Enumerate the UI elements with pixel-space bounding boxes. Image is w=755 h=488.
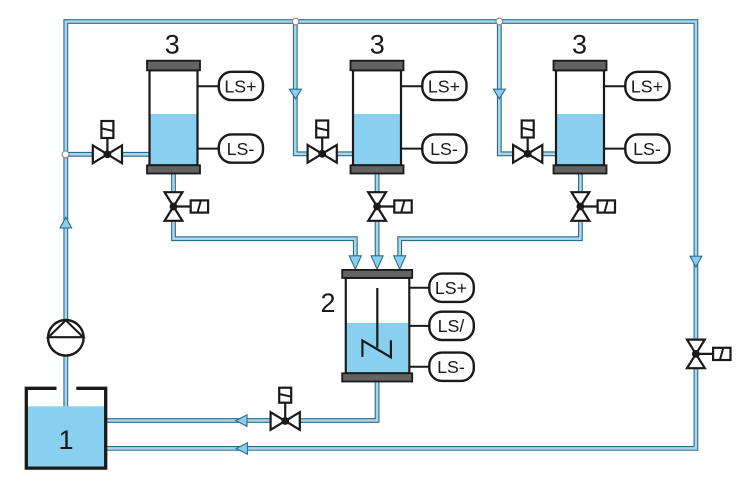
wire: drop to tank C inlet [499,22,557,154]
agitator impeller [362,340,391,357]
svg-text:LS+: LS+ [435,278,467,298]
flow arrow down on drop B [290,89,302,99]
wire: top header + left riser + right downcomer [66,22,696,449]
pipe network light cores [66,22,696,449]
drain valve mixer to tank 1 [271,388,300,430]
tank 3 (left) [147,61,263,174]
svg-text:2: 2 [320,288,335,318]
agitator shaft [376,288,378,348]
inlet valve tank B [308,121,337,163]
bottom valve tank A [165,192,209,221]
sensor connectors [409,287,429,289]
wire: tank A bottom to mixer [174,172,356,263]
flow arrow down on right downcomer [690,256,702,267]
LS/ stadium [429,312,474,340]
tank 3 (middle) [351,61,467,174]
junction node on top header (drop C) [496,18,503,25]
svg-text:LS/: LS/ [438,316,465,336]
svg-text:LS-: LS- [437,357,465,377]
flow arrow left on bottom return [236,443,247,454]
pipe network dark outlines [66,22,696,449]
flow arrow up on left riser [60,217,72,228]
walls [26,388,105,468]
LS+ stadium [429,274,474,302]
bottom valve tank C [572,192,616,221]
junction node on top header (drop B) [292,18,299,25]
flow arrow left on mixer drain [236,415,247,426]
svg-text:3: 3 [370,29,385,59]
wire: drop to tank B inlet [295,22,354,154]
svg-text:3: 3 [165,29,180,59]
bottom valve tank B [368,192,412,221]
bottom cap [342,373,412,381]
reservoir tank 1 [26,388,106,468]
inlet valve tank C [513,121,542,163]
top cap [342,270,412,278]
water fill [347,323,408,373]
svg-text:3: 3 [572,29,587,59]
tank 3 (right) [554,61,670,174]
water fill [26,406,106,468]
inlet valve tank A [93,121,122,163]
wire: tank C bottom to mixer [400,172,581,263]
wire: tank B bottom to mixer [375,172,380,263]
mixer tank 2 [342,270,474,382]
wire: mixer drain to tank 1 [107,380,377,421]
flow arrows into mixer tank [349,256,361,269]
junction node on left riser [62,151,69,158]
flow arrow down on drop C [493,89,505,99]
LS- stadium [429,353,474,381]
valve on right downcomer [687,340,731,369]
pump P1 [48,320,84,356]
svg-text:1: 1 [58,425,73,455]
wire: inlet tank A [66,152,151,157]
tank body outline [346,278,410,374]
